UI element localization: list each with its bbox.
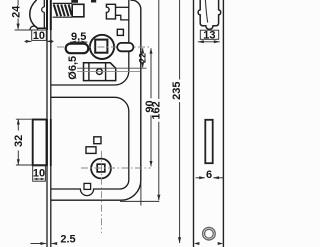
svg-text:10: 10 bbox=[33, 30, 45, 42]
svg-text:22: 22 bbox=[138, 53, 148, 63]
svg-text:32: 32 bbox=[13, 135, 25, 147]
svg-text:Ø6,5: Ø6,5 bbox=[67, 56, 79, 80]
svg-text:24: 24 bbox=[11, 5, 23, 18]
svg-text:13: 13 bbox=[203, 29, 215, 41]
svg-text:9,5: 9,5 bbox=[71, 31, 86, 43]
svg-text:162: 162 bbox=[151, 101, 163, 119]
svg-text:6: 6 bbox=[206, 169, 212, 181]
svg-text:2.5: 2.5 bbox=[60, 233, 75, 245]
svg-text:10: 10 bbox=[33, 167, 45, 179]
svg-text:235: 235 bbox=[171, 82, 183, 100]
